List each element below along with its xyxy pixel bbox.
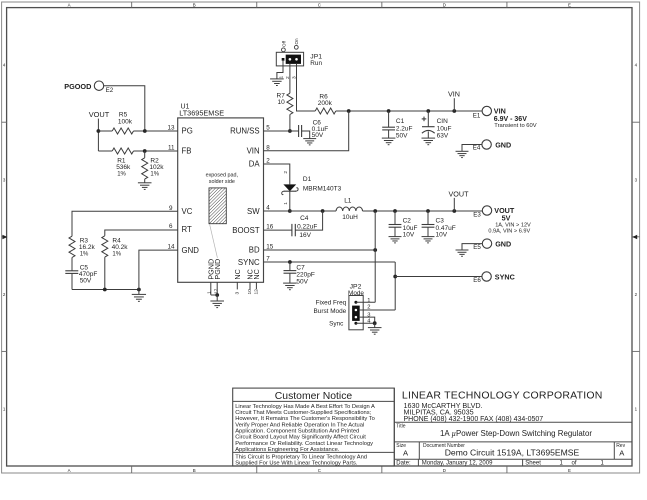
ground for C6 [303,138,316,140]
wire VIN rail [349,110,482,112]
resistor R3 16.2k [69,236,75,257]
svg-text:Supplied For Use With Linear T: Supplied For Use With Linear Technology … [235,460,358,466]
svg-text:1: 1 [207,291,213,294]
resistor R2 102k [144,151,146,158]
ground for C1 [382,137,396,139]
wire E4 to ground [462,145,482,152]
svg-text:2: 2 [283,171,289,174]
svg-text:exposed pad,: exposed pad, [206,172,239,178]
inductor L1 10uH [336,207,362,211]
resistor R5 100k [98,130,112,132]
svg-text:SYNC: SYNC [495,272,515,281]
svg-text:1%: 1% [117,171,126,177]
ground for GND pin rail [132,293,146,295]
svg-text:SYNC: SYNC [238,258,260,267]
wire C6 to ground [302,131,310,139]
ground for C7 [283,282,297,284]
svg-text:LT3695EMSE: LT3695EMSE [179,109,224,118]
wire C5 to bottom rail [71,273,73,289]
svg-text:50V: 50V [296,279,308,286]
svg-text:E1: E1 [473,113,481,120]
terminal E6 SYNC [482,272,491,281]
U1 PGND pin stubs and numbers [210,282,212,295]
svg-text:10V: 10V [436,232,448,239]
capacitor C1 2.2uF [388,111,390,127]
svg-text:Applications Engineering For A: Applications Engineering For Assistance. [235,447,340,453]
capacitor C7 220pF [289,262,291,271]
wire VC pin [72,211,178,236]
wire R3 to C5 [71,258,73,271]
svg-text:FB: FB [182,147,192,156]
capacitor C5 470pF [65,270,78,272]
svg-text:E3: E3 [473,211,481,218]
svg-text:10: 10 [278,99,286,106]
wire GND pin [139,250,178,289]
capacitor CIN 10uF polarized [427,111,429,127]
svg-text:200k: 200k [318,100,333,107]
wire JP2 pin2 [359,309,395,311]
wire VIN pin8 branch [264,111,349,151]
svg-text:On: On [294,38,299,45]
JP1 state circles Off On [282,48,286,52]
svg-text:PGND: PGND [213,259,222,280]
svg-text:RUN/SS: RUN/SS [230,127,259,136]
frame center arrow left [2,235,7,239]
wire E5 to ground [462,244,482,250]
ground for PGND [210,300,224,302]
svg-text:PG: PG [182,127,193,136]
svg-text:However, It Remains The Custom: However, It Remains The Customer's Respo… [235,416,375,422]
svg-text:Linear Technology Has Made A B: Linear Technology Has Made A Best Effort… [235,404,375,410]
svg-text:MBRM140T3: MBRM140T3 [303,186,342,193]
svg-text:B: B [193,468,196,473]
svg-text:50V: 50V [80,277,92,284]
wire SYNC pin7 [264,261,396,263]
wire VOUT to BD to JP2 pin1 vertical [374,211,376,302]
svg-text:5V: 5V [502,213,511,222]
terminal E2 PGOOD [94,81,103,90]
svg-text:BOOST: BOOST [232,226,260,235]
svg-text:Circuit Board Layout May Signi: Circuit Board Layout May Significantly A… [235,435,366,441]
wire JP2 pin3 [359,317,375,323]
svg-text:C2: C2 [403,217,412,224]
svg-text:63V: 63V [437,133,449,140]
svg-text:PGOOD: PGOOD [64,82,91,91]
svg-text:1%: 1% [112,252,121,258]
svg-text:1: 1 [283,202,289,205]
svg-text:16.2k: 16.2k [79,244,96,251]
svg-text:DA: DA [249,160,261,169]
op-amp U1 LT3695EMSE body [178,118,264,282]
exposed pad leader line [210,224,218,258]
svg-text:VOUT: VOUT [89,110,110,119]
svg-text:Run: Run [310,60,322,67]
wire RUN/SS pin5 [264,130,299,132]
svg-text:1A, VIN > 12V: 1A, VIN > 12V [495,222,531,228]
capacitor C6 0.1uF [298,125,300,137]
svg-text:100k: 100k [118,119,133,126]
ground for CIN [422,137,436,139]
capacitor C3 0.47uF [427,211,429,225]
resistor R6 200k [315,108,336,114]
terminal E4 GND [482,140,491,149]
date row [417,459,419,466]
size/docnum/rev row [418,442,420,459]
svg-text:536k: 536k [116,164,131,171]
svg-text:3: 3 [235,292,241,295]
ground for E5 [456,249,469,251]
capacitor C4 0.22uF boost [295,211,322,230]
ground for E4 [456,150,469,152]
svg-text:NC: NC [252,269,261,279]
svg-text:CIN: CIN [437,118,449,125]
terminal E5 GND [482,239,491,248]
svg-text:Burst Mode: Burst Mode [314,308,347,315]
svg-text:E: E [568,468,571,473]
svg-text:6: 6 [169,223,173,230]
svg-text:solder side: solder side [209,179,235,185]
svg-text:6.9V - 36V: 6.9V - 36V [494,116,527,123]
wire JP1 pin2 down [289,63,291,93]
wire BD pin15 [264,249,376,251]
svg-text:220pF: 220pF [296,271,314,278]
ground for C3 [422,236,435,238]
svg-text:of: of [572,461,577,467]
svg-text:C1: C1 [396,118,405,125]
svg-text:C4: C4 [300,215,309,222]
resistor R1 536k [98,150,112,152]
U1 NC pin stubs and numbers [236,282,238,289]
wire VOUT tick down to R5/R1 [97,119,99,151]
wire JP1 pin1 to ground [277,61,283,79]
bottom rail wire [72,289,139,291]
svg-text:VC: VC [182,207,193,216]
svg-text:12: 12 [254,289,260,295]
ground for C2 [389,236,402,238]
svg-text:LINEAR TECHNOLOGY CORPORATION: LINEAR TECHNOLOGY CORPORATION [402,390,603,402]
svg-text:E: E [568,2,571,7]
svg-text:Verify Proper And Reliable Ope: Verify Proper And Reliable Operation In … [235,422,364,428]
svg-text:0.9A, VIN > 6.9V: 0.9A, VIN > 6.9V [488,229,530,235]
wire R7 to RUN/SS [289,115,291,132]
customer notice box [233,388,395,466]
wire rail to ground [138,290,140,295]
wire JP2 pin4 [356,322,375,324]
terminal E3 VOUT [482,206,491,215]
svg-text:10V: 10V [403,232,415,239]
svg-text:B: B [193,2,196,7]
svg-text:C: C [318,468,321,473]
svg-text:MILPITAS, CA. 95035: MILPITAS, CA. 95035 [404,408,474,417]
frame center arrow right [632,235,637,239]
svg-text:C7: C7 [296,264,305,271]
svg-text:Sync: Sync [329,321,344,328]
ground for R2 [138,182,152,184]
svg-text:10uH: 10uH [342,214,358,221]
svg-text:Demo Circuit 1519A, LT3695EMSE: Demo Circuit 1519A, LT3695EMSE [445,448,580,458]
svg-text:Off: Off [281,40,286,47]
svg-text:Performance Or Reliability. Co: Performance Or Reliability. Contact Line… [235,441,373,447]
svg-text:E6: E6 [473,277,481,284]
svg-text:Monday, January 12, 2009: Monday, January 12, 2009 [422,461,493,467]
svg-text:Circuit That Meets Customer-Su: Circuit That Meets Customer-Supplied Spe… [235,410,371,416]
wire JP1 pin3 down to R6 [297,63,316,111]
svg-text:10: 10 [247,289,253,295]
svg-text:1: 1 [278,76,284,79]
svg-text:D: D [443,468,446,473]
wire DA pin2 [264,164,290,184]
svg-text:Fixed Freq: Fixed Freq [316,300,347,307]
svg-text:Date:: Date: [396,461,411,467]
svg-text:Application. Component Substit: Application. Component Substitution And … [235,429,359,435]
svg-text:A: A [68,2,71,7]
svg-text:BD: BD [249,246,260,255]
svg-text:L1: L1 [344,198,352,205]
svg-text:40.2k: 40.2k [112,244,129,251]
wire JP2 to ground [374,323,376,327]
jumper JP1 Run [276,52,303,66]
svg-text:RT: RT [182,225,192,234]
svg-text:17: 17 [213,288,219,294]
svg-text:VIN: VIN [448,90,460,99]
diode D1 MBRM140T3 [283,184,296,191]
svg-text:Sheet: Sheet [525,461,541,467]
svg-text:C: C [318,2,321,7]
wire R6 to VIN rail [336,110,349,112]
svg-text:E2: E2 [106,87,114,94]
svg-text:Title: Title [396,424,405,430]
svg-text:GND: GND [495,239,511,248]
svg-text:C3: C3 [436,217,445,224]
svg-text:Customer Notice: Customer Notice [275,391,353,402]
svg-text:Mode: Mode [348,290,364,297]
wire SYNC to terminal E6 [395,276,482,278]
terminal E1 VIN [482,106,491,115]
wire RT pin [105,230,178,236]
ground for JP2 [368,327,382,329]
wire SW pin4 [264,210,337,212]
svg-text:NC: NC [233,269,242,279]
svg-text:D1: D1 [303,176,312,183]
wire D1 to SW [289,191,291,211]
svg-text:102k: 102k [149,164,164,171]
svg-text:1: 1 [367,298,370,304]
svg-text:1%: 1% [150,171,159,177]
wire E2 to PG node [104,86,145,131]
svg-text:0.22uF: 0.22uF [297,223,317,230]
title block [393,388,395,466]
svg-text:1%: 1% [80,252,89,258]
resistor R4 40.2k [102,236,108,257]
svg-text:VIN: VIN [494,107,506,116]
wire R4 to bottom rail [104,257,106,289]
ground for JP1 [270,78,284,80]
svg-text:16V: 16V [299,232,311,239]
capacitor C2 10uF [394,211,396,225]
svg-text:1A µPower Step-Down Switching: 1A µPower Step-Down Switching Regulator [440,429,592,438]
svg-text:GND: GND [182,246,200,255]
svg-text:GND: GND [495,140,511,149]
svg-text:D: D [443,2,446,7]
svg-text:Transient to 60V: Transient to 60V [494,123,536,129]
wire L1 to VOUT rail [363,210,483,212]
svg-text:50V: 50V [396,133,408,140]
svg-text:A: A [68,468,71,473]
svg-text:VOUT: VOUT [449,189,470,198]
svg-text:VIN: VIN [247,147,260,156]
resistor R7 10 [287,93,293,114]
svg-text:E5: E5 [473,244,481,251]
svg-text:PHONE (408) 432-1900 FAX (408: PHONE (408) 432-1900 FAX (408) 434-0507 [404,416,544,423]
svg-text:SW: SW [247,207,260,216]
wire JP2 pin1 [356,301,375,303]
svg-text:E4: E4 [473,145,481,152]
wire SYNC to JP2 pin2 [394,262,396,310]
